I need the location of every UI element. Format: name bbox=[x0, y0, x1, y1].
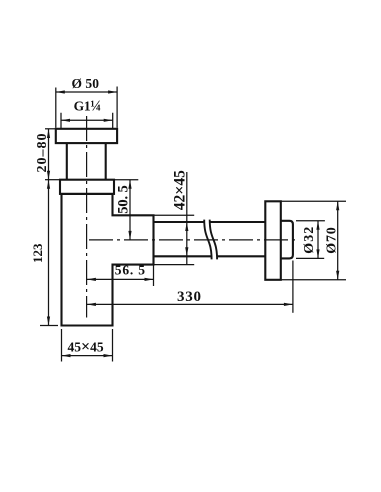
arrow 50.5 up bbox=[128, 180, 131, 189]
pipe right segment bbox=[210, 222, 266, 256]
svg-text:Ø32: Ø32 bbox=[302, 227, 317, 254]
45x45 extension lines bbox=[62, 329, 113, 362]
svg-text:56. 5: 56. 5 bbox=[115, 263, 146, 278]
svg-text:330: 330 bbox=[177, 289, 201, 305]
pipe left segment bbox=[154, 222, 212, 256]
arrow 20-80 up bbox=[47, 129, 50, 138]
56.5 extension line bbox=[153, 265, 155, 286]
pipe break curve left bbox=[204, 220, 211, 260]
arrow 20-80 down bbox=[47, 171, 50, 180]
arrow dia70 up bbox=[336, 201, 339, 210]
outlet stub bbox=[281, 221, 293, 259]
arrow 45x45 right bbox=[104, 354, 113, 357]
arrow 42 up bbox=[185, 222, 188, 231]
svg-text:45×45: 45×45 bbox=[67, 338, 103, 355]
dia32 extension lines bbox=[296, 221, 325, 259]
20-80 dimension line bbox=[48, 129, 50, 180]
svg-text:Ø 50: Ø 50 bbox=[71, 76, 99, 91]
dia32 dimension line bbox=[317, 221, 319, 259]
arrow dia50 left bbox=[56, 90, 65, 93]
arrow 123 up bbox=[47, 180, 50, 189]
svg-text:123: 123 bbox=[30, 243, 45, 263]
svg-text:50. 5: 50. 5 bbox=[116, 185, 132, 214]
330 dimension line bbox=[87, 303, 293, 305]
56.5 dimension line bbox=[87, 278, 154, 280]
123 dimension line bbox=[48, 180, 50, 326]
123 extension line bottom bbox=[40, 325, 58, 327]
330 extension line bbox=[292, 261, 294, 313]
20-80 extension line top bbox=[45, 128, 55, 130]
G1-1/4 extension lines bbox=[61, 113, 113, 129]
pipe break curve right bbox=[210, 220, 217, 260]
svg-text:20–80: 20–80 bbox=[35, 134, 50, 173]
vertical centerline bbox=[86, 116, 88, 318]
arrow 45x45 left bbox=[62, 354, 71, 357]
50.5 dimension line bbox=[129, 180, 131, 240]
42x45 extension lines bbox=[154, 215, 195, 264]
svg-text:Ø70: Ø70 bbox=[325, 227, 340, 254]
svg-text:G1¼: G1¼ bbox=[74, 99, 101, 115]
arrow dia32 down bbox=[316, 249, 319, 258]
arrow G left bbox=[61, 119, 70, 122]
dia50 extension lines bbox=[56, 87, 117, 128]
arrow dia70 down bbox=[336, 271, 339, 280]
body outline: trap body with compression nut bump bbox=[62, 194, 154, 326]
arrow dia32 up bbox=[316, 221, 319, 230]
arrow dia50 right bbox=[108, 90, 117, 93]
arrow 330 left bbox=[87, 303, 96, 306]
20-80 / 123 extension line at collar top bbox=[45, 179, 60, 181]
45x45 dimension line bbox=[62, 355, 113, 357]
dia50 dimension line bbox=[56, 91, 117, 93]
G1-1/4 dimension line bbox=[61, 119, 113, 121]
svg-text:42×45: 42×45 bbox=[172, 170, 189, 210]
arrow 42 down bbox=[185, 247, 188, 256]
50.5 extension line bbox=[114, 179, 138, 181]
arrow 123 down bbox=[47, 317, 50, 326]
dia70 dimension line bbox=[337, 201, 339, 279]
collar bbox=[60, 180, 114, 194]
arrow 50.5 down bbox=[128, 231, 131, 240]
top flange bbox=[56, 129, 117, 143]
arrow 56.5 left bbox=[87, 278, 96, 281]
neck tube bbox=[67, 143, 106, 180]
arrow G right bbox=[104, 119, 113, 122]
wall flange bbox=[265, 201, 281, 279]
arrow 330 right bbox=[284, 303, 293, 306]
horizontal centerline bbox=[89, 239, 298, 241]
dia70 extension lines bbox=[281, 201, 346, 279]
42x45 dimension line bbox=[186, 172, 188, 265]
arrow 56.5 right bbox=[145, 278, 154, 281]
